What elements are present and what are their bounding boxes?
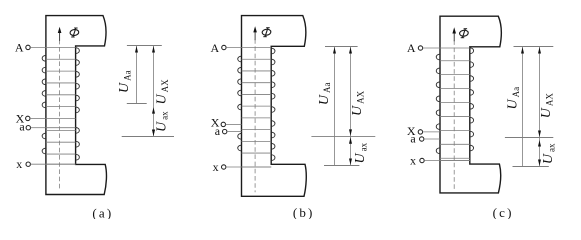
voltage reference tick, bottom (a) — [122, 136, 174, 138]
winding turns, left side (b) — [238, 56, 242, 151]
voltage reference tick, bottom (c) — [513, 166, 549, 168]
flux centerline (dashed) (a) — [59, 40, 61, 191]
svg-text:a: a — [19, 120, 25, 134]
winding rear connection lines (a) — [46, 59, 76, 164]
winding turns, left side (c) — [436, 54, 440, 154]
flux arrow (b) — [253, 26, 257, 40]
svg-text:a: a — [410, 132, 416, 146]
flux label PHI (c) — [459, 29, 468, 38]
voltage reference tick, middle (a) — [127, 103, 147, 105]
svg-text:A: A — [15, 40, 24, 54]
flux arrow (c) — [452, 27, 456, 41]
svg-text:x: x — [213, 160, 219, 174]
svg-text:Uax: Uax — [541, 143, 556, 164]
voltage reference tick, top (A level) (a) — [127, 45, 162, 47]
winding rear connection lines (c) — [440, 61, 470, 161]
voltage reference tick, middle (c) — [505, 137, 553, 139]
voltage arrow U_Aa (b) — [317, 47, 336, 166]
flux arrow (a) — [58, 27, 62, 41]
winding rear connection lines (b) — [242, 59, 272, 167]
svg-text:A: A — [407, 41, 416, 55]
svg-text:(b): (b) — [293, 205, 315, 219]
flux label PHI (a) — [70, 28, 79, 37]
voltage arrow U_ax (a) — [152, 107, 170, 136]
transformer core (a) — [46, 16, 107, 195]
voltage arrow U_Aa (c) — [506, 47, 524, 167]
svg-text:UAa: UAa — [506, 87, 521, 110]
terminal x (c) — [410, 154, 470, 168]
transformer core (c) — [440, 16, 501, 193]
winding turns, right side (c) — [470, 48, 474, 151]
voltage arrow U_AX (a) — [152, 46, 170, 137]
voltage arrow U_ax (b) — [349, 137, 369, 165]
voltage arrow U_ax (c) — [538, 140, 557, 166]
voltage reference tick, top (A level) (c) — [514, 46, 554, 48]
svg-text:UAX: UAX — [350, 90, 365, 116]
svg-text:UAX: UAX — [155, 79, 170, 105]
terminal a (a) — [19, 120, 46, 134]
svg-text:x: x — [16, 157, 22, 171]
flux centerline (dashed) (c) — [453, 40, 455, 189]
flux centerline (dashed) (b) — [254, 39, 256, 192]
voltage reference tick, bottom (b) — [324, 165, 359, 167]
voltage arrow U_AX (b) — [349, 47, 365, 166]
terminal a (b) — [215, 124, 242, 138]
svg-text:a: a — [215, 124, 221, 138]
winding turns, right side (b) — [271, 48, 275, 160]
terminal A (b) — [210, 41, 271, 55]
terminal X (b) — [211, 115, 242, 129]
svg-text:(c): (c) — [493, 205, 514, 219]
winding turns, right side (a) — [76, 48, 80, 160]
terminal x (b) — [213, 160, 272, 174]
terminal A (a) — [15, 40, 76, 54]
terminal a (c) — [410, 132, 440, 146]
flux label PHI (b) — [262, 28, 271, 37]
voltage reference tick, middle (b) — [311, 135, 375, 137]
svg-text:UAa: UAa — [317, 82, 332, 105]
voltage arrow U_Aa (a) — [117, 46, 138, 104]
winding turns, left side (a) — [42, 55, 46, 153]
terminal A (c) — [407, 41, 470, 55]
svg-text:x: x — [410, 154, 416, 168]
voltage reference tick, top (A level) (b) — [325, 46, 358, 48]
svg-text:(a): (a) — [92, 206, 113, 220]
terminal x (a) — [16, 157, 75, 171]
terminal X (a) — [16, 111, 46, 125]
terminal X (c) — [407, 124, 440, 138]
svg-text:Uax: Uax — [353, 142, 368, 163]
voltage arrow U_AX (c) — [538, 47, 554, 167]
svg-text:UAa: UAa — [117, 70, 132, 93]
svg-text:Uax: Uax — [154, 111, 169, 132]
svg-text:UAX: UAX — [539, 93, 554, 119]
svg-text:A: A — [210, 41, 219, 55]
transformer core (b) — [242, 16, 307, 197]
